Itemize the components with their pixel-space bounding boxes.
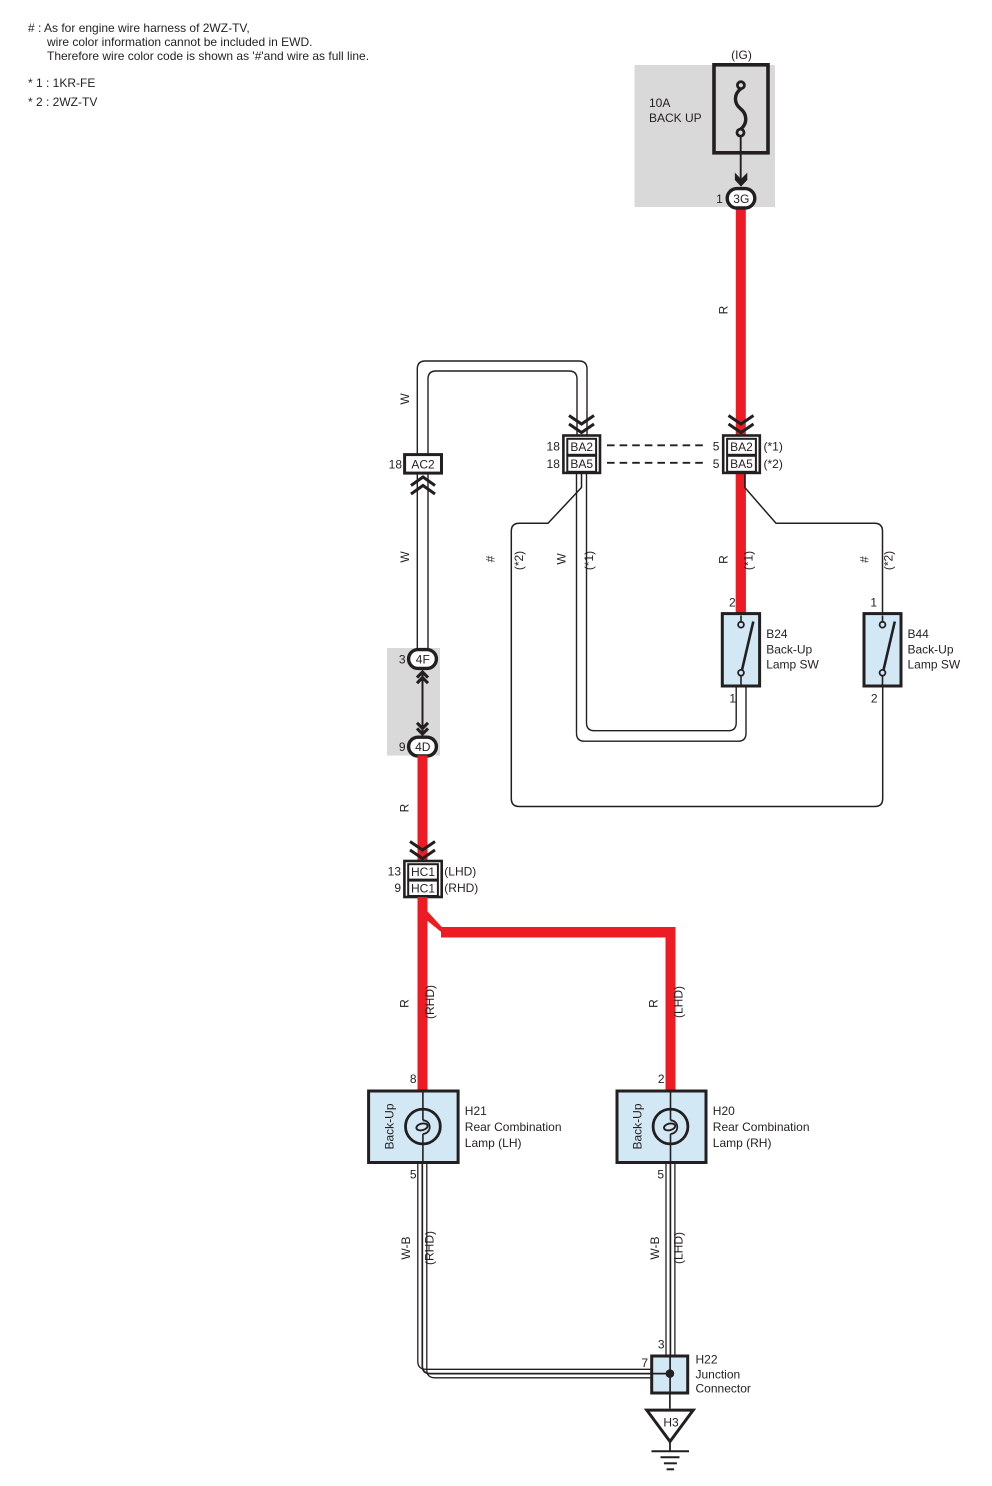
svg-text:(*2): (*2): [512, 551, 526, 570]
svg-text:BA5: BA5: [730, 457, 753, 471]
wire fuse to connector 3G: [740, 136, 742, 180]
connector stack HC1 (LHD)/(RHD): [404, 861, 441, 897]
svg-text:R: R: [647, 999, 661, 1008]
ground H3 triangle: [647, 1410, 693, 1441]
svg-text:* 1 : 1KR-FE: * 1 : 1KR-FE: [28, 76, 95, 90]
wire R from fuse 3G down to BA2 and B24 (red): [736, 206, 746, 614]
label B24 Back-Up Lamp SW: [766, 627, 819, 672]
svg-text:1: 1: [729, 692, 736, 706]
svg-text:(LHD): (LHD): [672, 986, 686, 1018]
svg-text:BA2: BA2: [570, 440, 593, 454]
svg-text:H3: H3: [663, 1416, 679, 1430]
wire H22 to ground: [669, 1393, 671, 1409]
lamp H20 Rear Combination Lamp (RH): [617, 1091, 706, 1163]
svg-text:(RHD): (RHD): [423, 1231, 437, 1265]
svg-text:W-B: W-B: [648, 1236, 662, 1259]
svg-text:3: 3: [399, 653, 406, 667]
svg-text:4D: 4D: [415, 740, 431, 754]
fuse block shading (IG): [635, 65, 776, 207]
svg-text:18: 18: [547, 439, 561, 453]
svg-text:W: W: [555, 553, 569, 565]
wire R branch to H20 (red): [428, 911, 449, 937]
dashed link BA2-BA2: [607, 444, 706, 446]
svg-text:(*1): (*1): [742, 551, 756, 570]
svg-text:4F: 4F: [416, 653, 430, 667]
connector 3G: [727, 189, 755, 208]
svg-text:B24: B24: [766, 627, 788, 641]
wire W-B (RHD) from H21 to H22 (white wire with black stripe): [418, 1163, 652, 1378]
connector stack left BA2/BA5: [563, 436, 600, 473]
svg-text:(*1): (*1): [582, 551, 596, 570]
arrowhead into 3G: [735, 173, 747, 187]
note text about 2WZ-TV harness: [28, 21, 369, 63]
connector 4F: [409, 650, 437, 669]
arrow out of AC2 (upward): [411, 477, 435, 494]
fuse 10A BACK UP box: [714, 65, 768, 153]
connector AC2: [405, 455, 442, 474]
ground stem: [669, 1442, 671, 1451]
svg-text:AC2: AC2: [411, 457, 435, 471]
svg-text:Lamp SW: Lamp SW: [908, 658, 961, 672]
svg-text:2: 2: [871, 692, 878, 706]
switch B44 Back-Up Lamp SW: [864, 614, 901, 686]
svg-text:HC1: HC1: [411, 882, 435, 896]
svg-text:BACK UP: BACK UP: [649, 111, 702, 125]
svg-text:Lamp SW: Lamp SW: [766, 658, 819, 672]
svg-text:HC1: HC1: [411, 865, 435, 879]
svg-text:5: 5: [657, 1168, 664, 1182]
svg-text:(RHD): (RHD): [423, 985, 437, 1019]
wire W from AC2 up and over to BA2 (double line): [417, 361, 587, 455]
svg-text:(RHD): (RHD): [444, 881, 478, 895]
svg-text:* 2 : 2WZ-TV: * 2 : 2WZ-TV: [28, 95, 97, 109]
svg-text:R: R: [398, 999, 412, 1008]
svg-text:1: 1: [716, 192, 723, 206]
svg-text:Back-Up: Back-Up: [766, 643, 812, 657]
svg-text:Back-Up: Back-Up: [908, 643, 954, 657]
connector stack right BA2/BA5: [723, 436, 760, 473]
wire W (*1) from left BA5 down around to B24 pin 1 (double line): [577, 473, 747, 741]
svg-text:(IG): (IG): [731, 48, 752, 62]
svg-text:B44: B44: [908, 627, 930, 641]
svg-text:# : As for engine wire harness: # : As for engine wire harness of 2WZ-TV…: [28, 21, 250, 35]
label B44 Back-Up Lamp SW: [908, 627, 961, 672]
svg-text:3G: 3G: [733, 192, 749, 206]
svg-text:BA2: BA2: [730, 440, 753, 454]
wire R from HC1 down to H21 (red): [418, 897, 428, 1091]
svg-text:R: R: [398, 803, 412, 812]
svg-text:Rear Combination: Rear Combination: [713, 1120, 810, 1134]
svg-text:5: 5: [713, 439, 720, 453]
svg-text:W: W: [398, 551, 412, 563]
svg-text:H22: H22: [696, 1353, 718, 1367]
svg-text:(*1): (*1): [764, 439, 783, 453]
svg-text:wire color information cannot: wire color information cannot be include…: [46, 35, 312, 49]
svg-text:Junction: Junction: [696, 1368, 741, 1382]
svg-text:10A: 10A: [649, 96, 670, 110]
svg-text:9: 9: [394, 881, 401, 895]
dashed link BA5-BA5: [607, 462, 706, 464]
label H20 Rear Combination Lamp (RH): [713, 1104, 810, 1150]
svg-text:1: 1: [870, 596, 877, 610]
ground bars: [652, 1451, 690, 1469]
svg-text:Rear Combination: Rear Combination: [465, 1120, 562, 1134]
wire R (*1) from right BA5 to B24 pin 2 (red): [736, 473, 746, 614]
wire W-B (LHD) from H20 to H22 (white wire with black stripe): [666, 1163, 675, 1356]
svg-text:W-B: W-B: [399, 1236, 413, 1259]
svg-text:5: 5: [713, 457, 720, 471]
svg-text:#: #: [484, 555, 498, 562]
arrow into HC1: [410, 842, 435, 859]
svg-text:W: W: [398, 393, 412, 405]
svg-text:H21: H21: [465, 1104, 487, 1118]
double headed arrow between 4F and 4D: [422, 673, 424, 734]
junction connector H22: [652, 1356, 688, 1393]
fuse element symbol: [735, 82, 745, 136]
wire # (*2) from left BA5 down around to B44 pin 2 (full line): [511, 473, 882, 807]
svg-text:7: 7: [641, 1356, 648, 1370]
svg-text:R: R: [717, 305, 731, 314]
svg-text:BA5: BA5: [570, 457, 593, 471]
wire R from 4D down to HC1 (red): [418, 756, 428, 862]
connector 4D: [409, 737, 437, 756]
label H22 Junction Connector: [696, 1353, 751, 1396]
svg-text:2: 2: [729, 596, 736, 610]
svg-text:Lamp (RH): Lamp (RH): [713, 1136, 772, 1150]
arrow into left BA2: [569, 416, 594, 433]
label H21 Rear Combination Lamp (LH): [465, 1104, 562, 1150]
svg-text:(*2): (*2): [764, 457, 783, 471]
svg-text:Back-Up: Back-Up: [631, 1103, 645, 1149]
svg-text:3: 3: [658, 1338, 665, 1352]
svg-text:(*2): (*2): [882, 551, 896, 570]
instrument panel shading around 4F/4D: [387, 648, 440, 756]
svg-text:Back-Up: Back-Up: [383, 1103, 397, 1149]
svg-text:8: 8: [410, 1072, 417, 1086]
arrow into right BA2: [729, 416, 754, 433]
svg-text:2: 2: [658, 1072, 665, 1086]
svg-text:5: 5: [410, 1168, 417, 1182]
lamp H21 Rear Combination Lamp (LH): [369, 1091, 459, 1163]
svg-text:18: 18: [547, 457, 561, 471]
svg-text:#: #: [858, 556, 872, 563]
wire # (*2) from right BA5 down to B44 pin 1 (full line): [745, 473, 883, 614]
svg-text:(LHD): (LHD): [672, 1232, 686, 1264]
svg-text:Therefore wire color code is s: Therefore wire color code is shown as '#…: [47, 49, 369, 63]
wire W from AC2 down to 4F (double line): [417, 473, 428, 652]
svg-text:(LHD): (LHD): [444, 865, 476, 879]
svg-text:Lamp (LH): Lamp (LH): [465, 1136, 522, 1150]
svg-text:Connector: Connector: [696, 1382, 751, 1396]
svg-text:9: 9: [399, 740, 406, 754]
svg-text:18: 18: [389, 457, 403, 471]
switch B24 Back-Up Lamp SW: [722, 614, 759, 686]
svg-text:13: 13: [388, 865, 402, 879]
svg-text:H20: H20: [713, 1104, 735, 1118]
svg-text:R: R: [717, 555, 731, 564]
